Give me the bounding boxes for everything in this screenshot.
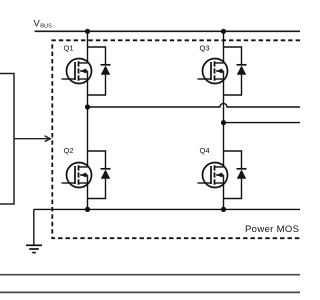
transistor Q1 bbox=[62, 59, 92, 84]
svg-text:BUS: BUS bbox=[40, 23, 52, 29]
wire phase B output bbox=[224, 122, 301, 124]
svg-text:Q3: Q3 bbox=[200, 44, 210, 53]
svg-text:Q1: Q1 bbox=[64, 44, 74, 53]
node bus-Q1 junction bbox=[85, 29, 90, 34]
wire ground branch bbox=[33, 209, 35, 244]
arrow control signal bbox=[14, 136, 50, 142]
diode D2 (body diode of Q2) bbox=[88, 151, 111, 199]
wire phase A with crossover hop bbox=[88, 103, 301, 107]
transistor Q3 bbox=[198, 59, 228, 84]
wire bottom source rail bbox=[34, 208, 300, 210]
transistor Q4 bbox=[198, 163, 228, 188]
border line upper (bottom of figure) bbox=[0, 274, 300, 276]
node bus-Q3 junction bbox=[221, 29, 226, 34]
border line lower (bottom of figure) bbox=[0, 291, 300, 293]
wire Q1 source to phase A node bbox=[87, 71, 89, 107]
wire Q3 drain to bus bbox=[223, 31, 225, 63]
svg-text:Power MOS: Power MOS bbox=[245, 224, 299, 235]
controller box (left, partially visible) bbox=[0, 74, 14, 205]
dashed box Power MOSFET block bbox=[52, 40, 300, 238]
wire Q1 drain to bus bbox=[87, 31, 89, 63]
node rail-Q2 junction bbox=[85, 207, 90, 212]
wire Q4 source to bottom rail bbox=[223, 175, 225, 209]
wire Q3 source down to Q4 drain bbox=[223, 71, 225, 167]
node phase B junction bbox=[221, 120, 226, 125]
node rail-Q4 junction bbox=[221, 207, 226, 212]
ground bbox=[26, 245, 42, 252]
label V_BUS bbox=[34, 18, 53, 29]
svg-text:Q4: Q4 bbox=[200, 146, 210, 155]
node phase A junction bbox=[85, 104, 90, 109]
wire Q2 drain to phase A node bbox=[87, 107, 89, 167]
diode D1 (body diode of Q1) bbox=[88, 47, 111, 95]
transistor Q2 bbox=[62, 163, 92, 188]
svg-text:Q2: Q2 bbox=[64, 146, 74, 155]
diode D4 (body diode of Q4) bbox=[224, 151, 247, 199]
wire Q2 source to bottom rail bbox=[87, 175, 89, 209]
diode D3 (body diode of Q3) bbox=[224, 47, 247, 95]
wire V_BUS bus rail bbox=[35, 30, 301, 32]
